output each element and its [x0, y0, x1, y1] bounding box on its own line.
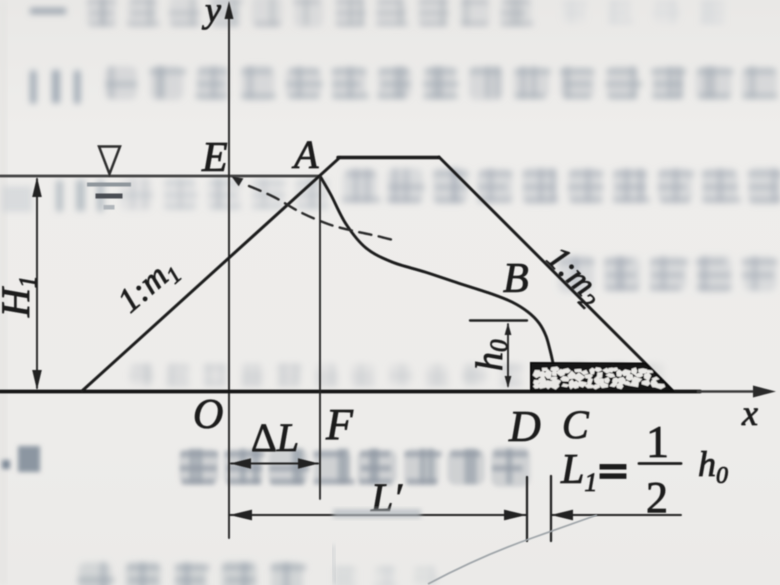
- rubble drain prism: [531, 363, 673, 391]
- svg-text:2: 2: [646, 473, 668, 522]
- svg-text:1: 1: [646, 416, 669, 467]
- svg-text:B: B: [503, 256, 529, 302]
- background bleed-through text line 5: [129, 363, 665, 387]
- H1 dimension line: [36, 179, 38, 388]
- x-axis (ground line): [0, 390, 700, 394]
- label H1 rotated: [0, 276, 42, 318]
- dashed theoretical curve from E: [249, 186, 393, 240]
- water level symbol (nabla): [99, 147, 120, 175]
- x-axis arrowhead: [753, 386, 776, 398]
- dam downstream face 1:m2: [439, 157, 673, 391]
- y-axis: [228, 8, 230, 538]
- svg-text:x: x: [741, 393, 758, 433]
- vertical line A to F: [319, 176, 321, 499]
- dL dimension double arrow: [231, 463, 318, 465]
- L' dimension line O to D: [229, 514, 527, 516]
- svg-text:D: D: [508, 402, 541, 451]
- label 1:m2 rotated: [537, 239, 612, 314]
- svg-text:A: A: [291, 132, 319, 177]
- background bleed-through text line 3: [2, 167, 780, 212]
- arrowhead pointing left at E: [232, 177, 244, 187]
- dam crest: [338, 156, 439, 159]
- svg-text:E: E: [201, 135, 228, 181]
- h0 dimension arrow: [507, 324, 509, 386]
- svg-text:ΔL: ΔL: [251, 415, 299, 460]
- water surface line: [0, 175, 320, 178]
- background bleed-through text bottom line: [78, 561, 439, 585]
- L1 dimension line at C: [551, 514, 681, 516]
- dam upstream face 1:m1: [82, 157, 340, 391]
- background bleed-through heading "4.2 ...": [2, 446, 530, 487]
- svg-text:y: y: [202, 0, 221, 30]
- svg-text:F: F: [325, 400, 354, 449]
- gray bleed highlight on L-prime line: [333, 509, 421, 518]
- background bleed-through text line 2: [30, 65, 778, 104]
- faint page-gutter mark: [333, 545, 335, 584]
- svg-text:O: O: [193, 392, 223, 438]
- water level symbol dashes: [87, 183, 131, 187]
- background bleed-through text line 4: [558, 255, 777, 292]
- stray pen/scan arc bottom: [428, 515, 597, 584]
- y-axis arrowhead: [225, 1, 234, 19]
- fraction bar of 1/2: [639, 462, 681, 465]
- background bleed-through text line 1: [30, 0, 725, 28]
- svg-text:C: C: [562, 402, 590, 447]
- h0 tick line: [470, 319, 527, 321]
- tick at D: [526, 477, 528, 541]
- label h0 rotated: [469, 339, 513, 371]
- label 1:m1 rotated: [111, 250, 186, 323]
- phreatic (seepage) curve A-B: [320, 176, 553, 363]
- tick at C: [550, 476, 552, 541]
